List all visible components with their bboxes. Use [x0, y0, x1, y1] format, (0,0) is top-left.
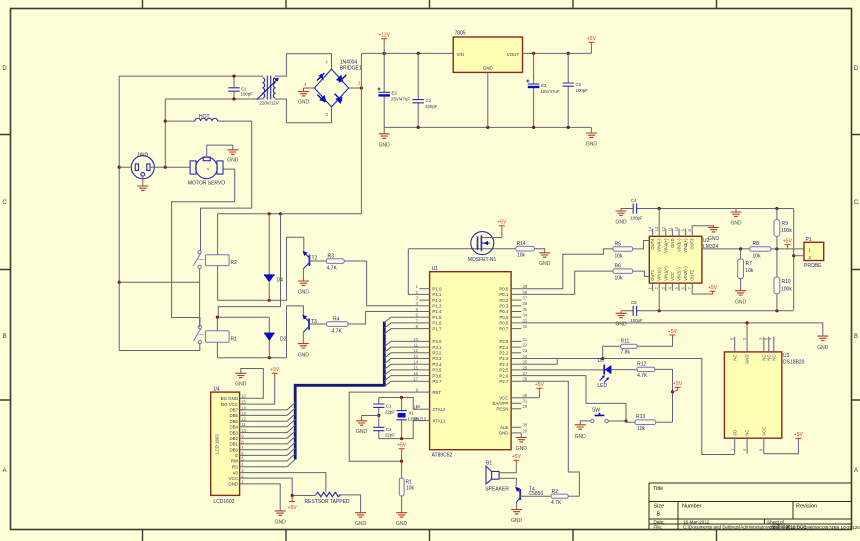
svg-text:+5V: +5V — [497, 220, 507, 226]
svg-text:+5V: +5V — [783, 238, 793, 244]
capacitor E2 25V/47uF electrolytic — [378, 53, 391, 127]
capacitor C4 100pF — [633, 203, 636, 213]
wire R4 to P1.4 — [348, 312, 419, 325]
wire T3 collector — [287, 306, 304, 358]
ground (C4 left) — [620, 209, 622, 212]
wire pot right to ground — [339, 495, 361, 513]
svg-text:VIN2(-): VIN2(-) — [677, 267, 682, 281]
svg-text:EA/VPP: EA/VPP — [493, 401, 509, 406]
svg-text:PROBE: PROBE — [804, 263, 822, 269]
svg-text:+5V: +5V — [270, 367, 280, 373]
svg-text:P2.3: P2.3 — [499, 356, 509, 361]
svg-text:GND: GND — [228, 482, 238, 487]
svg-text:VIN1(-): VIN1(-) — [657, 267, 662, 281]
svg-text:C2: C2 — [426, 98, 432, 103]
svg-text:GND: GND — [745, 355, 750, 364]
svg-text:GND: GND — [516, 446, 528, 452]
wire 7805 GND pin — [487, 72, 489, 127]
transformer 220V/12V — [257, 76, 279, 100]
svg-text:GND: GND — [298, 100, 310, 106]
svg-text:SW: SW — [592, 407, 600, 413]
wire LCD VCC node — [249, 478, 315, 495]
svg-text:R2: R2 — [552, 489, 559, 495]
svg-text:P2.4: P2.4 — [499, 362, 509, 367]
svg-text:P3.5: P3.5 — [432, 368, 442, 373]
svg-text:MOSFET-N1: MOSFET-N1 — [468, 257, 497, 263]
svg-text:R2: R2 — [231, 260, 238, 266]
wire R11 to +5V — [637, 338, 672, 346]
wire P2.6 to switch node — [521, 376, 626, 421]
svg-text:AT89C52: AT89C52 — [432, 453, 453, 459]
LED D5 — [600, 365, 612, 383]
svg-text:10k: 10k — [637, 426, 646, 432]
svg-text:22pF: 22pF — [385, 433, 395, 438]
svg-text:LED: LED — [597, 383, 607, 389]
svg-text:GND: GND — [615, 322, 627, 328]
svg-text:C1: C1 — [386, 404, 392, 409]
resistor R13 10k — [656, 421, 673, 423]
relay R1 switch — [194, 326, 206, 344]
wire R2 coil rail — [218, 299, 287, 301]
speaker B1 — [486, 466, 499, 484]
resistor R4 4.7K — [309, 323, 327, 325]
svg-text:R10: R10 — [782, 279, 791, 285]
wire P2.7 to R2 base path — [521, 381, 579, 496]
bus MCU to LCD — [295, 322, 384, 460]
wire left vertical (mains) — [118, 76, 120, 350]
svg-text:10: 10 — [674, 226, 679, 231]
svg-text:100k: 100k — [781, 228, 792, 234]
resistor R2 4.7K (base) — [520, 495, 551, 497]
U1 left pins — [413, 284, 446, 423]
svg-text:10k: 10k — [406, 486, 415, 492]
svg-text:VIN1(+): VIN1(+) — [663, 266, 668, 281]
inductor HOT — [165, 118, 251, 121]
svg-text:V0: V0 — [233, 470, 239, 475]
motor MOTOR SERVO — [190, 157, 223, 179]
wire LED to R12 — [611, 369, 637, 371]
svg-text:4.7K: 4.7K — [551, 500, 562, 506]
svg-text:100pF: 100pF — [425, 104, 438, 109]
svg-text:D5: D5 — [598, 358, 605, 364]
svg-text:7.8k: 7.8k — [621, 350, 631, 356]
svg-text:11: 11 — [241, 422, 246, 427]
ground (bridge) — [303, 88, 305, 92]
wire secondary top to bridge pin1 — [275, 54, 332, 76]
svg-text:DB6: DB6 — [229, 413, 238, 418]
wire R14 to ground — [534, 249, 544, 253]
resistor R14 10k — [516, 246, 535, 251]
svg-text:OUT3: OUT3 — [690, 238, 695, 250]
svg-text:R1: R1 — [231, 337, 238, 343]
svg-text:OUT4: OUT4 — [650, 238, 655, 250]
wire motor right brush to R1 supply — [172, 169, 235, 325]
svg-text:R3: R3 — [328, 254, 335, 260]
svg-text:Title: Title — [653, 486, 663, 492]
wire P2.4 join — [521, 359, 557, 365]
wire DS18B20 VCC to +5V — [764, 441, 799, 454]
svg-text:100pF: 100pF — [630, 318, 643, 323]
svg-text:P1.0: P1.0 — [432, 286, 442, 291]
svg-text:15: 15 — [241, 400, 246, 405]
svg-text:P1.5: P1.5 — [432, 315, 442, 320]
svg-text:Size: Size — [654, 504, 665, 510]
ground (MCU GND pin) — [520, 433, 522, 438]
ground (LCD backlight) — [235, 373, 246, 377]
svg-text:D2: D2 — [280, 337, 287, 343]
svg-text:12: 12 — [241, 417, 246, 422]
wire crystal bottom rail to XTAL1 — [379, 421, 420, 439]
wire P2.3 to DS18B20 I/O — [521, 359, 734, 455]
transistor T2 — [303, 251, 310, 281]
svg-text:4.7K: 4.7K — [637, 373, 648, 379]
svg-text:B1: B1 — [486, 460, 492, 466]
svg-text:P2.0: P2.0 — [499, 339, 509, 344]
capacitor C2 22pF (xtal) — [373, 416, 384, 439]
svg-text:VOUT: VOUT — [507, 52, 520, 57]
svg-text:P0.3: P0.3 — [499, 304, 509, 309]
svg-text:NC: NC — [771, 355, 776, 361]
svg-text:I/O: I/O — [732, 429, 737, 435]
power +5V (mosfet) — [499, 226, 505, 229]
wire P1 pin2 stub — [794, 255, 804, 257]
svg-text:10: 10 — [241, 428, 246, 433]
wire LCD BG VCC to +5V — [249, 377, 274, 405]
wire R1 coil top — [216, 317, 218, 331]
svg-text:GND: GND — [615, 219, 627, 225]
svg-text:P2.7: P2.7 — [499, 379, 509, 384]
wire P2.5 to LED — [521, 369, 604, 371]
wire P1.1 to gate — [408, 249, 419, 295]
crystal X1 12MHZ — [396, 398, 406, 439]
wire HOT to R2 switch — [201, 121, 252, 251]
svg-text:P0.1: P0.1 — [499, 292, 509, 297]
wire R1 supply rail — [217, 316, 269, 318]
svg-text:OUT1: OUT1 — [650, 269, 655, 281]
svg-text:VIN3(+): VIN3(+) — [683, 238, 688, 253]
svg-text:C: C — [854, 200, 859, 206]
svg-text:R5: R5 — [615, 242, 622, 248]
relay coil R1 — [206, 331, 230, 343]
svg-text:P3.3: P3.3 — [432, 356, 442, 361]
wire +12V vertical long (to relay supply) — [360, 53, 362, 213]
svg-text:BG VCC: BG VCC — [221, 402, 238, 407]
svg-text:XTAL1: XTAL1 — [432, 418, 446, 423]
capacitor C2 100pF — [413, 53, 424, 127]
power +5V (speaker) — [513, 460, 519, 465]
svg-text:21: 21 — [523, 337, 528, 342]
wire LCD V0 to potentiometer tap — [249, 473, 326, 492]
svg-text:P3.2: P3.2 — [432, 351, 442, 356]
svg-text:<: < — [207, 166, 210, 171]
wire op-amp top rail — [621, 208, 794, 210]
title block — [649, 483, 852, 530]
svg-text:BG GND: BG GND — [221, 396, 238, 401]
microcontroller U1 AT89C52 — [430, 272, 512, 450]
wire transformer primary top — [119, 75, 263, 77]
ground (T2) — [298, 281, 309, 285]
svg-text:P3.1: P3.1 — [432, 345, 442, 350]
resistor R6 10k — [521, 271, 613, 294]
svg-text:GND: GND — [355, 521, 367, 527]
ground (power rail left) — [383, 127, 385, 133]
svg-text:Revision: Revision — [796, 504, 817, 510]
svg-text:P2.6: P2.6 — [499, 373, 509, 378]
ground (JIND) — [142, 176, 144, 186]
wire R2 coil top — [217, 214, 219, 255]
wire motor top tab to ground — [207, 145, 233, 157]
svg-text:P1.6: P1.6 — [432, 321, 442, 326]
ground (T4) — [511, 510, 522, 514]
svg-text:13: 13 — [654, 226, 659, 231]
svg-text:19: 19 — [422, 417, 427, 422]
svg-text:DB5: DB5 — [229, 419, 238, 424]
wire VOUT +5V rail — [523, 52, 592, 54]
capacitor C1 22pF (xtal) — [373, 398, 384, 416]
svg-text:RS: RS — [232, 465, 238, 470]
wire R2 switch lower to mains — [118, 269, 199, 328]
svg-text:GND: GND — [298, 353, 310, 359]
svg-text:OUT2: OUT2 — [690, 269, 695, 281]
svg-text:GND: GND — [235, 382, 247, 388]
ground (xtal) — [356, 421, 367, 425]
svg-text:VIN4(-): VIN4(-) — [657, 238, 662, 252]
svg-text:1/4: 1/4 — [213, 387, 220, 393]
svg-text:P2.5: P2.5 — [499, 368, 509, 373]
wire R1 supply drop — [218, 214, 280, 317]
svg-text:4.7K: 4.7K — [327, 266, 338, 272]
svg-text:P1: P1 — [806, 237, 812, 243]
svg-text:JIND: JIND — [137, 153, 149, 159]
svg-text:GND: GND — [730, 220, 742, 226]
svg-text:VCC: VCC — [229, 476, 238, 481]
resistor R1 10k vertical — [401, 461, 403, 513]
DS18B20 top pins — [730, 323, 777, 364]
power +5V (VCC pin) — [536, 388, 542, 398]
svg-text:A: A — [854, 468, 858, 474]
connector JIND — [131, 156, 154, 179]
svg-text:SPEAKER: SPEAKER — [485, 487, 509, 493]
svg-text:R14: R14 — [517, 241, 526, 247]
svg-text:E3: E3 — [541, 83, 547, 88]
svg-text:Number: Number — [682, 504, 702, 510]
power +5V (7805 out) — [588, 42, 594, 47]
svg-text:31: 31 — [523, 399, 528, 404]
svg-text:+5V: +5V — [397, 443, 407, 449]
svg-text:GND: GND — [511, 518, 523, 524]
wire T2 collector — [287, 237, 304, 300]
power +5V (U2 vcc) — [692, 291, 706, 294]
svg-text:GND: GND — [356, 429, 368, 435]
capacitor C1 100pF (primary) — [228, 76, 239, 99]
svg-text:GND: GND — [275, 520, 287, 526]
svg-text:11: 11 — [667, 226, 672, 231]
svg-text:DB3: DB3 — [229, 430, 238, 435]
svg-text:NC: NC — [745, 430, 750, 436]
relay R2 switch — [193, 251, 205, 269]
wire R12 to +5V node — [655, 369, 673, 422]
wire crystal top rail to XTAL2 — [379, 398, 420, 410]
svg-text:18-Mar-2012: 18-Mar-2012 — [683, 519, 710, 524]
svg-text:P0.7: P0.7 — [499, 326, 509, 331]
svg-text:22pF: 22pF — [385, 409, 395, 414]
svg-text:C5: C5 — [631, 300, 637, 305]
svg-text:100pF: 100pF — [630, 216, 643, 221]
wire bus entries LCD side — [249, 403, 295, 467]
wire primary-bottom drop — [164, 99, 166, 167]
wire U2 pin to top rail — [658, 209, 660, 229]
svg-text:+5V: +5V — [668, 329, 678, 335]
svg-text:+5V: +5V — [708, 285, 718, 291]
svg-text:C3: C3 — [576, 82, 582, 87]
svg-text:P2.1: P2.1 — [499, 345, 509, 350]
svg-text:B: B — [657, 512, 661, 518]
U1 right pins — [493, 284, 528, 436]
svg-text:7805: 7805 — [455, 31, 466, 37]
wire right vertical to P1 pin2 — [793, 209, 795, 310]
wire switch to ground — [580, 421, 590, 425]
svg-text:P1.7: P1.7 — [432, 326, 442, 331]
svg-text:BRIDGE1: BRIDGE1 — [340, 66, 362, 72]
svg-text:X1: X1 — [409, 411, 415, 416]
ground (T3) — [298, 344, 309, 348]
svg-text:C: C — [2, 200, 7, 206]
svg-text:DB7: DB7 — [229, 408, 238, 413]
wire R1 coil bottom — [216, 342, 218, 357]
svg-text:+5V: +5V — [512, 454, 522, 460]
svg-text:VIN: VIN — [457, 52, 464, 57]
potentiometer RESTSOR TAPPED — [316, 492, 341, 496]
svg-text:P0.0: P0.0 — [499, 286, 509, 291]
svg-text:GND: GND — [670, 239, 675, 248]
svg-text:P1.4: P1.4 — [432, 309, 442, 314]
wire R5 to U2 — [633, 241, 650, 249]
wire R2 right (from P2.7) — [568, 495, 579, 497]
bridge rectifier BRIDGE1 1N4004 — [314, 69, 348, 107]
svg-text:GND: GND — [735, 299, 747, 305]
resistor R12 4.7K — [637, 367, 655, 371]
resistor R11 7.8k — [603, 346, 621, 358]
ground (top rail) — [735, 209, 737, 213]
ground (P0.6 net) — [817, 336, 828, 340]
svg-text:100pF: 100pF — [576, 88, 589, 93]
svg-text:U1: U1 — [432, 266, 439, 272]
wire op-amp bottom rail — [621, 310, 794, 312]
regulator U 7805 — [453, 37, 522, 72]
svg-text:12MHZ: 12MHZ — [408, 417, 423, 422]
power +5V (R12/R13) — [673, 387, 681, 392]
display LCD1602 — [211, 392, 240, 495]
wire relay supply 12V — [218, 213, 362, 215]
svg-text:R7: R7 — [746, 261, 753, 267]
wire +12V rail — [361, 52, 453, 54]
transistor T3 — [302, 315, 309, 344]
svg-text:P1.3: P1.3 — [432, 304, 442, 309]
wire bus entries MCU side — [384, 317, 419, 386]
resistor R7 10k vertical — [740, 249, 742, 291]
svg-text:R13: R13 — [636, 414, 645, 420]
svg-text:+12V: +12V — [378, 33, 390, 39]
svg-text:LCD1602: LCD1602 — [213, 499, 234, 505]
svg-text:100pF: 100pF — [241, 92, 254, 97]
ground (motor) — [232, 145, 234, 150]
svg-text:GND: GND — [586, 142, 598, 148]
wire bridge pin2 to +12V node — [349, 87, 362, 89]
svg-text:P2.2: P2.2 — [499, 351, 509, 356]
wire R13 to switch — [608, 421, 635, 422]
capacitor C5 100pF — [633, 306, 636, 316]
svg-text:D4: D4 — [277, 278, 284, 284]
svg-text:GND: GND — [298, 290, 310, 296]
svg-text:37: 37 — [523, 296, 528, 301]
svg-text:VIN4(+): VIN4(+) — [663, 238, 668, 253]
wire LCD GND — [249, 484, 280, 511]
svg-text:R12: R12 — [637, 361, 646, 367]
svg-text:d桌面学2012 DDB: d桌面学2012 DDB — [769, 523, 807, 530]
svg-text:Date:: Date: — [654, 519, 665, 524]
resistor R10 100k vertical — [776, 249, 778, 311]
svg-text:25V/47uF: 25V/47uF — [391, 97, 410, 102]
MOSFET-N1 — [471, 229, 502, 255]
svg-text:16V/47uF: 16V/47uF — [541, 89, 560, 94]
svg-text:29: 29 — [523, 404, 528, 409]
svg-text:4.7K: 4.7K — [332, 329, 343, 335]
svg-text:GND: GND — [575, 434, 587, 440]
power +5V (backlight) — [272, 373, 278, 376]
svg-text:RESTSOR TAPPED: RESTSOR TAPPED — [304, 499, 349, 505]
svg-text:P3.7: P3.7 — [432, 379, 442, 384]
svg-text:16: 16 — [241, 394, 246, 399]
svg-text:PESN: PESN — [496, 407, 508, 412]
ground (U2) — [708, 228, 719, 232]
svg-text:220V/12V: 220V/12V — [259, 101, 278, 106]
svg-text:XTAL2: XTAL2 — [432, 407, 446, 412]
svg-text:E: E — [235, 453, 238, 458]
svg-text:GND: GND — [396, 521, 408, 527]
wire R2 coil bottom — [217, 266, 219, 301]
ground (LCD) — [275, 511, 286, 515]
svg-text:10k: 10k — [745, 268, 754, 274]
svg-text:18: 18 — [416, 404, 421, 409]
wire U2 pin13/GND to gnd symbol — [692, 226, 713, 229]
wire gate/source run — [408, 248, 516, 250]
svg-text:P0.4: P0.4 — [499, 309, 509, 314]
wire bridge pin4 to ground — [304, 87, 315, 89]
svg-text:14: 14 — [241, 405, 246, 410]
ground (pot) — [355, 513, 366, 517]
switch SW — [591, 413, 609, 423]
svg-text:R4: R4 — [333, 317, 340, 323]
wire JIND right pin to motor — [150, 166, 190, 168]
wire U2 out to R8/R7 — [702, 248, 750, 250]
svg-text:20: 20 — [523, 428, 528, 433]
wire JIND left pin — [119, 166, 131, 168]
svg-text:P3.0: P3.0 — [432, 339, 442, 344]
svg-text:VIN3(-): VIN3(-) — [677, 238, 682, 252]
svg-text:+5V: +5V — [673, 381, 683, 387]
svg-text:DS18B20: DS18B20 — [783, 360, 805, 366]
svg-text:C4: C4 — [631, 198, 637, 203]
svg-text:LCD 1602: LCD 1602 — [215, 434, 220, 454]
resistor R9 100k vertical — [776, 209, 778, 249]
svg-text:P1.2: P1.2 — [432, 298, 442, 303]
svg-text:GND: GND — [708, 236, 720, 242]
svg-text:VCC: VCC — [761, 427, 766, 436]
svg-text:VIN2(+): VIN2(+) — [683, 266, 688, 281]
wire R3 to P1.3 — [344, 261, 419, 306]
svg-text:RET: RET — [432, 390, 441, 395]
wire P0.6 to ground far right — [521, 323, 823, 336]
